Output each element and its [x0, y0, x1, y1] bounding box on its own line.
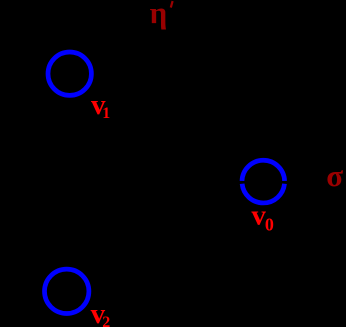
svg-text:σ: σ [326, 158, 343, 193]
svg-text:0: 0 [265, 214, 274, 234]
svg-text:2: 2 [102, 314, 110, 327]
svg-text:η: η [150, 0, 168, 30]
svg-text:1: 1 [102, 105, 110, 122]
